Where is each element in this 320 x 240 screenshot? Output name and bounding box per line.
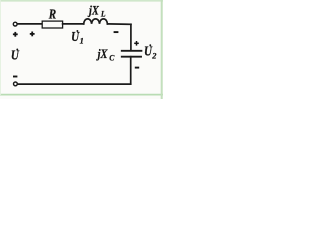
wire: [63, 23, 84, 25]
svg-text:jX: jX: [96, 48, 108, 61]
plus (source): [13, 32, 18, 37]
svg-text:C: C: [109, 53, 115, 62]
label U1: [71, 29, 80, 44]
svg-text:L: L: [100, 9, 106, 18]
terminal (bottom-left): [14, 82, 18, 86]
label R: [48, 7, 56, 22]
label U (source): [11, 48, 20, 63]
inductor jXL: [84, 19, 108, 24]
label U2: [144, 43, 153, 58]
wire: [18, 83, 131, 85]
wire: [130, 24, 132, 50]
plus (U1): [30, 32, 35, 37]
wire: [107, 23, 130, 25]
svg-text:2: 2: [151, 51, 156, 60]
terminal (top-left): [13, 22, 17, 26]
minus (source): [13, 76, 17, 78]
resistor R: [42, 21, 62, 28]
minus (U1): [114, 31, 119, 33]
label jXL: [87, 5, 99, 18]
wire: [17, 23, 42, 25]
svg-text:1: 1: [80, 37, 84, 46]
wire: [130, 57, 132, 84]
svg-text:U: U: [11, 48, 20, 63]
svg-text:jX: jX: [87, 5, 99, 18]
polarity marks: [13, 32, 139, 77]
svg-text:R: R: [48, 7, 56, 22]
capacitor jXC: [122, 50, 142, 52]
label jXC: [96, 48, 108, 61]
plus (U2): [134, 41, 139, 46]
minus (U2): [135, 67, 139, 69]
